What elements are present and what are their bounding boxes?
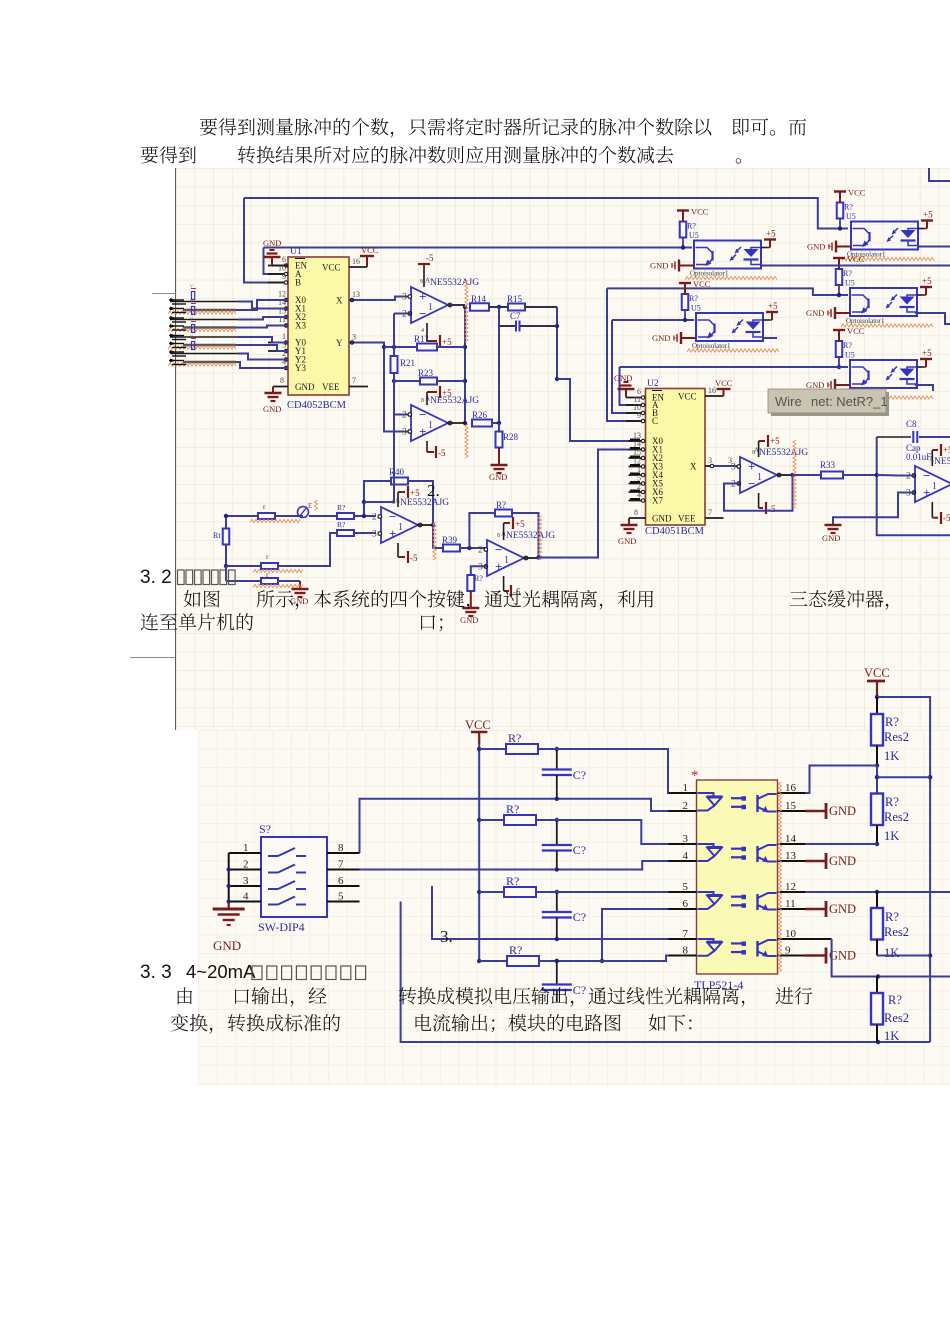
wire U6A output: [777, 473, 795, 477]
svg-text:3: 3: [402, 428, 407, 438]
label TLP521-4: [694, 978, 743, 992]
svg-text:R?: R?: [885, 715, 899, 729]
wire opto D out: [915, 313, 950, 324]
ground opto F: [806, 379, 850, 391]
error marker under opto D: [841, 324, 933, 327]
U2 VEE pin7 stub: [705, 517, 724, 519]
svg-text:R15: R15: [507, 294, 523, 304]
svg-text:−: −: [419, 407, 426, 422]
svg-text:16: 16: [352, 257, 360, 266]
wire TLP pin6 down: [600, 909, 697, 963]
svg-text:GND: GND: [822, 533, 840, 543]
label CD4051BCM: [645, 526, 705, 537]
svg-text:GND: GND: [213, 938, 241, 953]
resistor R? Res2 1K #3: [871, 892, 909, 960]
svg-text:GND: GND: [652, 514, 672, 524]
svg-text:9: 9: [282, 272, 286, 281]
wire U5A pin3 to R?: [471, 566, 487, 575]
svg-text:NE5532AJG: NE5532AJG: [759, 448, 808, 458]
svg-text:VEE: VEE: [678, 514, 696, 524]
svg-text:X3: X3: [295, 321, 306, 331]
ground GND TLP ch4: [805, 948, 856, 964]
svg-text:·: ·: [672, 262, 675, 271]
wire row lower: [226, 566, 300, 588]
wire to optoisolator U5-F: [620, 366, 849, 368]
ground symbol U6B: [822, 524, 842, 543]
U1 left pin stubs: [268, 264, 288, 370]
U2 pin names: [652, 391, 697, 524]
svg-text:R14: R14: [471, 294, 487, 304]
wire output rail vertical: [463, 305, 467, 425]
wire to optoisolator U5-C: [612, 319, 694, 321]
wire top right corner: [929, 168, 950, 181]
power +5 above U3B: [421, 386, 452, 405]
svg-text:V: V: [190, 299, 193, 304]
svg-text:+: +: [419, 424, 426, 439]
power +5 above U5A: [497, 517, 525, 540]
svg-text:+5: +5: [515, 519, 525, 529]
U2 left pin stubs: [626, 396, 646, 502]
svg-text:−: −: [389, 509, 396, 524]
svg-text:3: 3: [372, 530, 377, 540]
ground symbol U2: [618, 524, 638, 546]
wire R1 to TLP pin1: [538, 749, 697, 793]
power -5 below U5A: [504, 576, 521, 597]
resistor R14: [470, 294, 489, 311]
svg-text:16: 16: [785, 782, 797, 794]
svg-text:C: C: [652, 416, 658, 426]
svg-text:1: 1: [757, 472, 762, 483]
label CD4052BCM: [287, 400, 347, 411]
resistor R? for opto F: [836, 341, 855, 360]
svg-text:13: 13: [785, 850, 797, 862]
svg-text:C?: C?: [573, 983, 586, 997]
wire R14-R15: [489, 305, 508, 309]
svg-text:GND: GND: [295, 382, 315, 392]
wire U5A output to U2 X1: [539, 450, 646, 558]
wire Y1 cross: [236, 345, 288, 351]
resistor R? Res2 1K #4: [871, 977, 909, 1044]
svg-text:+5: +5: [442, 337, 452, 347]
svg-text:2: 2: [478, 546, 483, 556]
svg-text:3: 3: [352, 333, 356, 342]
svg-text:NE5532AJG: NE5532AJG: [430, 278, 479, 288]
svg-text:9: 9: [785, 945, 791, 957]
wire R28 node vertical: [498, 307, 500, 423]
svg-text:-5: -5: [438, 448, 446, 458]
svg-text:12: 12: [785, 881, 796, 893]
svg-text:+: +: [389, 526, 396, 541]
svg-text:+: +: [748, 459, 755, 474]
IC U2 CD4051BCM body: [646, 389, 706, 526]
svg-text:·: ·: [828, 309, 831, 318]
resistor R33: [793, 460, 877, 479]
error marker under opto A: [685, 276, 777, 279]
wire U2 pin C vertical: [607, 288, 646, 421]
page margin rules: [175, 168, 177, 730]
tooltip Wire net NetR?_1: [768, 389, 889, 416]
power -5 below U6B: [932, 502, 950, 524]
svg-text:GND: GND: [650, 261, 668, 271]
wire Y0 cross: [238, 337, 288, 343]
wire right rail: [877, 697, 932, 1042]
svg-text:R1?: R1?: [414, 334, 429, 344]
svg-text:11: 11: [785, 898, 796, 910]
svg-text:8: 8: [683, 945, 689, 957]
U2 GND pin8: [629, 518, 646, 524]
optoisolator U5-C body: [696, 313, 763, 341]
optoisolator U5-C label: [692, 342, 731, 350]
svg-text:2: 2: [243, 859, 249, 871]
svg-text:R?: R?: [689, 294, 698, 303]
wire SW6 to TLP pin7: [432, 886, 697, 941]
wire X1 cross: [238, 302, 288, 309]
resistor r mid: [261, 552, 278, 569]
error marker U5A: [538, 516, 541, 560]
label U2: [647, 379, 659, 389]
resistor R28: [496, 423, 519, 464]
U2 pin numbers: [633, 386, 732, 517]
svg-text:GND: GND: [263, 238, 281, 248]
wire R39 to U5A pin2: [460, 546, 487, 550]
wire R21 to node: [364, 373, 394, 502]
svg-text:Res2: Res2: [884, 1011, 909, 1025]
svg-text:VCC: VCC: [693, 279, 711, 289]
capacitor C? ch2: [542, 820, 586, 870]
IC TLP521-4 body: [697, 780, 778, 974]
power +5 opto C: [763, 301, 778, 320]
svg-text:GND: GND: [829, 902, 856, 916]
svg-text:CD4052BCM: CD4052BCM: [287, 400, 347, 411]
svg-text:1: 1: [428, 420, 433, 431]
U1 VEE pin 7 stub: [349, 386, 368, 388]
ground symbol below U5A: [460, 607, 479, 625]
op-amp U6A NE5532AJG: [731, 447, 808, 494]
svg-text:VCC: VCC: [322, 263, 341, 273]
label U1: [290, 247, 302, 257]
optoisolator U5-B label: [847, 251, 886, 259]
TLP pin stubs and numbers: [669, 782, 806, 957]
svg-text:R?: R?: [844, 203, 853, 212]
svg-text:VCC: VCC: [691, 207, 709, 217]
svg-text:TLP521-4: TLP521-4: [694, 978, 743, 992]
resistor R40: [389, 467, 408, 485]
svg-text:8: 8: [392, 500, 395, 506]
wire SW5 long bottom: [401, 902, 931, 1045]
heading 3.2: [140, 567, 235, 588]
svg-text:4: 4: [243, 891, 249, 903]
resistor R21: [391, 356, 416, 373]
error marker under opto B: [842, 257, 934, 260]
IC U1 CD4052BCM body: [288, 257, 349, 395]
svg-text:3: 3: [478, 563, 483, 573]
svg-text:5: 5: [683, 881, 689, 893]
svg-text:R?: R?: [843, 341, 852, 350]
U1 pin numbers: [278, 255, 360, 385]
wire R2 bottom to pin14: [805, 843, 877, 845]
resistor R? for opto A: [680, 222, 699, 241]
svg-text:Res2: Res2: [884, 925, 909, 939]
svg-text:R23: R23: [418, 368, 434, 378]
wire X0 cross: [236, 300, 288, 310]
svg-text:0.01uF: 0.01uF: [906, 452, 931, 462]
power -5 above U3A: [418, 253, 434, 287]
svg-text:8: 8: [280, 376, 284, 385]
wire top rail net to optoisolator U5-B: [244, 198, 848, 229]
svg-text:U1: U1: [290, 247, 302, 257]
power +5 above U4A: [392, 486, 420, 507]
wire opto C out: [763, 337, 777, 339]
svg-text:R26: R26: [472, 410, 488, 420]
big text 3.: [440, 927, 453, 946]
svg-text:1: 1: [504, 555, 509, 566]
capacitor C? ch1: [542, 749, 586, 799]
svg-text:10: 10: [785, 928, 797, 940]
wire VCC rail vertical: [477, 744, 481, 963]
wire R7 right: [512, 513, 539, 558]
svg-text:R?: R?: [888, 993, 902, 1007]
svg-text:5: 5: [338, 891, 344, 903]
svg-text:−: −: [419, 306, 426, 321]
schematic grid area 1: [176, 168, 950, 730]
svg-text:+5: +5: [922, 348, 932, 358]
svg-text:r: r: [263, 502, 266, 511]
document text paragraphs (CJK as glyph outlines): [141, 118, 889, 1034]
resistor Rt: [213, 514, 229, 568]
error markers r network: [250, 519, 303, 587]
svg-text:Y3: Y3: [295, 363, 306, 373]
error marker under opto C: [687, 349, 779, 352]
wire opto B out: [918, 246, 950, 248]
label SW-DIP4: [258, 920, 305, 934]
wire R? to opto D: [837, 285, 841, 297]
svg-text:3: 3: [402, 293, 407, 303]
svg-text:X: X: [336, 296, 343, 306]
svg-text:4: 4: [683, 850, 689, 862]
svg-text:VCC: VCC: [847, 326, 865, 336]
svg-text:3: 3: [708, 456, 712, 465]
power +5 above U6B: [932, 444, 950, 466]
svg-text:R?: R?: [843, 269, 852, 278]
svg-text:3: 3: [731, 463, 736, 473]
U2 X out wire: [705, 464, 740, 467]
power VCC opto B: [834, 188, 866, 203]
svg-text:VCC: VCC: [465, 718, 491, 732]
svg-text:+5: +5: [766, 229, 776, 239]
svg-text:13: 13: [352, 290, 360, 299]
svg-text:4~20mA: 4~20mA: [186, 961, 256, 982]
wire net A-select to optoisolator U5-A: [264, 245, 693, 249]
power -5 below U3B: [427, 441, 446, 458]
svg-text:R40: R40: [389, 467, 405, 477]
wire row upper: [227, 515, 376, 517]
svg-text:6: 6: [683, 898, 689, 910]
svg-text:3. 2: 3. 2: [140, 567, 172, 588]
svg-text:9: 9: [637, 411, 641, 420]
ground opto C: [652, 332, 696, 344]
error marker below U3B: [465, 424, 468, 458]
svg-text:3: 3: [683, 833, 689, 845]
svg-text:C?: C?: [573, 768, 586, 782]
wire U4A output to R39: [417, 525, 443, 548]
power VCC opto F: [833, 326, 865, 341]
power VCC opto C: [679, 279, 711, 294]
ground GND TLP ch3: [805, 901, 856, 917]
optoisolator U5-A label: [690, 270, 729, 278]
svg-text:NE5532AJG: NE5532AJG: [400, 498, 449, 508]
wire pin10 step: [805, 939, 950, 979]
svg-text:GND: GND: [614, 373, 632, 383]
wire SW7 to TLP pin4: [360, 861, 697, 872]
svg-text:R33: R33: [820, 460, 836, 470]
optoisolator U5-D label: [846, 317, 885, 325]
op-amp U6B NE5532 partial: [906, 456, 950, 503]
wire U1 pin A: [264, 248, 289, 275]
svg-text:1: 1: [428, 302, 433, 313]
wire R? to opto F: [837, 357, 841, 369]
error markers under input wires: [168, 311, 236, 366]
svg-text:8: 8: [752, 450, 755, 456]
resistor R? mid: [337, 520, 354, 536]
svg-text:GND: GND: [652, 333, 670, 343]
svg-text:U5: U5: [845, 351, 855, 360]
wire R3 to TLP pin5: [536, 891, 697, 893]
current source E: [298, 500, 318, 518]
wire U1 pin B from top rail: [244, 198, 288, 283]
svg-text:GND: GND: [806, 380, 824, 390]
svg-text:GND: GND: [829, 804, 856, 818]
input wires thick: [183, 310, 236, 362]
power +5 opto D: [917, 276, 932, 295]
resistor R15: [507, 294, 525, 311]
svg-text:8: 8: [497, 533, 500, 539]
svg-text:+: +: [923, 485, 930, 500]
wire U3A feedback vertical: [393, 314, 395, 357]
label S?: [259, 822, 271, 836]
svg-text:GND: GND: [489, 472, 507, 482]
svg-text:3: 3: [243, 875, 249, 887]
big text 2.: [427, 481, 440, 500]
svg-text:R?: R?: [508, 731, 521, 745]
wire X2 cross: [238, 317, 288, 320]
svg-text:C?: C?: [573, 910, 586, 924]
svg-text:1: 1: [932, 481, 937, 492]
wire R? to opto B: [838, 219, 842, 231]
optoisolator U5-B body: [851, 222, 918, 250]
svg-text:*: *: [691, 768, 699, 784]
wire U3B output: [447, 422, 465, 424]
svg-text:6: 6: [338, 875, 344, 887]
resistor r upper: [258, 502, 275, 519]
resistor R? upper: [337, 503, 354, 519]
svg-text:VCC: VCC: [678, 392, 697, 402]
svg-text:7: 7: [683, 928, 689, 940]
svg-text:R21: R21: [400, 358, 415, 368]
error marker U6A: [793, 440, 796, 508]
svg-text:−: −: [748, 476, 755, 491]
capacitor C? ch3: [542, 892, 586, 939]
svg-text:+5: +5: [943, 445, 950, 455]
svg-text:B: B: [295, 278, 301, 288]
svg-text:+5: +5: [922, 276, 932, 286]
wire R? to ground: [470, 591, 472, 607]
wire R21 bottom: [392, 373, 411, 415]
power VCC right: [864, 666, 890, 699]
svg-text:1K: 1K: [884, 749, 899, 763]
svg-text:GND: GND: [806, 308, 824, 318]
U1 GND pin 8 wire: [273, 387, 288, 393]
svg-text:R?: R?: [337, 520, 346, 529]
power VCC opto D: [833, 254, 865, 269]
optoisolator U5-D body: [850, 288, 917, 316]
power VCC opto A: [677, 207, 709, 222]
svg-text:8: 8: [420, 279, 423, 285]
svg-text:+5: +5: [768, 301, 778, 311]
wire U5A output: [523, 555, 541, 559]
ground symbol U1 EN: [263, 238, 288, 266]
svg-text:NE5532AJG: NE5532AJG: [506, 531, 555, 541]
ground opto A: [650, 260, 694, 272]
ground opto D: [806, 307, 850, 319]
svg-text:GND: GND: [807, 242, 825, 252]
svg-text:1K: 1K: [884, 829, 899, 843]
svg-text:GND: GND: [829, 854, 856, 868]
svg-text:Res2: Res2: [884, 810, 909, 824]
power -5 below U4A: [398, 543, 418, 563]
svg-text:2: 2: [402, 411, 407, 421]
wire U3A output: [447, 304, 465, 306]
resistor r lower: [261, 570, 278, 584]
svg-text:C?: C?: [573, 843, 586, 857]
wire Y2 cross: [238, 354, 288, 360]
svg-text:R?: R?: [885, 795, 899, 809]
wire Y3 cross: [236, 362, 288, 368]
error marker U4A output: [433, 522, 436, 560]
svg-text:1: 1: [398, 522, 403, 533]
switch symbols: [268, 848, 306, 905]
svg-text:GND: GND: [618, 536, 636, 546]
svg-text:GND: GND: [829, 949, 856, 963]
svg-text:VCC: VCC: [847, 254, 865, 264]
svg-text:CD4051BCM: CD4051BCM: [645, 526, 705, 537]
svg-text:8: 8: [634, 508, 638, 517]
svg-text:R?: R?: [474, 574, 483, 583]
svg-text:VCC: VCC: [715, 378, 733, 388]
resistor R? ch4: [479, 943, 559, 966]
svg-text:C7: C7: [510, 311, 521, 321]
svg-text:U5: U5: [846, 212, 856, 221]
wire U6B pin3 to ground: [833, 493, 915, 525]
svg-text:net: NetR?_1: net: NetR?_1: [811, 394, 888, 409]
resistor R? ch1: [479, 731, 559, 754]
schematic grid area 2: [198, 730, 950, 1086]
wire SW8 to TLP pin2: [360, 797, 697, 853]
wire R7 left: [469, 513, 495, 548]
svg-text:R39: R39: [442, 535, 458, 545]
svg-text:1K: 1K: [884, 1029, 899, 1043]
wire R40 right: [408, 481, 435, 527]
svg-text:1: 1: [683, 782, 689, 794]
label asterisk: [691, 768, 699, 784]
U2 VCC pin16: [705, 378, 733, 396]
op-amp U3B NE5532AJG: [402, 395, 479, 442]
heading 3.3 4~20mA: [140, 961, 366, 983]
resistor R? for opto B: [837, 203, 856, 222]
svg-text:X: X: [690, 462, 697, 472]
U1 pin names: [295, 259, 343, 393]
resistor R? below U5A: [467, 574, 483, 591]
svg-text:+5: +5: [410, 488, 420, 498]
